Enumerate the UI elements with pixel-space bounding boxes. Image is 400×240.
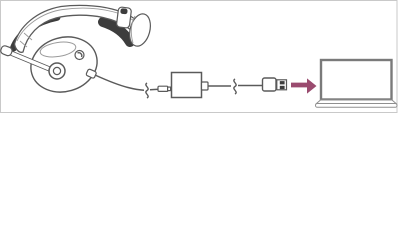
mic capsule [0, 45, 13, 57]
3.5mm plug [158, 86, 171, 91]
far ear pad cushion (dark crescent) [103, 22, 130, 42]
cup face ring [39, 40, 77, 59]
laptop bottom slab [316, 104, 398, 108]
frame border [1, 1, 398, 113]
cable break mark 2 [234, 79, 236, 94]
cable stub at cup [86, 69, 97, 79]
wire: adapter to break 2 [208, 85, 231, 87]
volume dial [75, 51, 84, 60]
mic boom [6, 51, 52, 70]
headset headband [15, 5, 147, 52]
headband inner cushion left (dark arc) [14, 17, 58, 48]
slider (right) [116, 7, 131, 28]
near ear cup [24, 29, 103, 99]
far shell contour line [131, 16, 135, 43]
laptop screen [321, 60, 392, 100]
USB plug body [263, 78, 277, 91]
cable break mark 1 [146, 83, 148, 98]
wire: break 1 to plug [150, 88, 159, 91]
wire: cup to break 1 [95, 75, 144, 90]
wire: break 2 to USB plug [238, 85, 262, 87]
USB contact holes [280, 81, 285, 84]
headband segment lines [20, 15, 129, 48]
adapter box U1 [172, 73, 202, 98]
arrow (insert direction) [291, 78, 317, 93]
headband crease line [17, 8, 144, 41]
adapter output stub [202, 82, 209, 90]
slider notch (dark) [120, 8, 128, 14]
far ear cup shell [126, 12, 153, 49]
USB metal shield [277, 80, 287, 90]
mic hinge [49, 63, 65, 79]
laptop base (trapezoid) [317, 100, 397, 104]
